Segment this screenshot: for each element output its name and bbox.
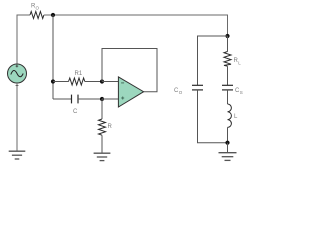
svg-text:C: C — [73, 109, 78, 115]
wire Co to bottom — [198, 90, 228, 143]
wire Rl to Cs — [227, 66, 229, 85]
svg-text:O: O — [179, 90, 183, 95]
capacitor Cs — [222, 84, 233, 86]
node left of R1 — [51, 79, 55, 83]
wire bottom branch to C — [53, 98, 72, 100]
resistor R1 — [69, 78, 85, 85]
wire R to ground — [101, 135, 103, 153]
resistor R (vertical) — [99, 119, 106, 135]
wire node to ground — [227, 143, 229, 153]
svg-text:O: O — [36, 6, 40, 11]
wire node to op-amp plus input — [102, 98, 118, 100]
op-amp U1 — [118, 77, 143, 107]
wire source bottom to ground — [16, 83, 18, 151]
wire Ro to top-right corner — [44, 15, 228, 36]
wire source top to Ro — [17, 15, 30, 64]
wire Cs to L — [227, 90, 229, 104]
ground under R — [94, 153, 111, 160]
ground under source — [9, 151, 26, 159]
ground right — [219, 153, 237, 161]
resistor Ro — [30, 12, 44, 19]
node top right — [225, 34, 229, 38]
node after Ro — [51, 13, 55, 17]
source Vs — [8, 64, 27, 83]
wire to Co branch — [198, 36, 228, 85]
wire C to node — [78, 98, 102, 100]
svg-text:S: S — [240, 90, 243, 95]
svg-text:R: R — [108, 124, 113, 130]
wire L to node — [227, 127, 229, 142]
capacitor C — [71, 95, 73, 104]
feedback wire output to inverting input — [102, 49, 157, 92]
node bottom right — [225, 141, 229, 145]
node inverting input — [100, 79, 104, 83]
wire node down to RC network — [52, 15, 54, 99]
wire to R1 — [53, 81, 69, 83]
inductor L — [228, 104, 232, 127]
capacitor Co — [192, 84, 203, 86]
node noninverting input — [100, 97, 104, 101]
svg-text:R1: R1 — [75, 71, 83, 77]
minus under source — [16, 85, 19, 87]
wire node to op-amp minus input — [102, 81, 118, 83]
svg-text:L: L — [234, 114, 238, 120]
wire node down to R — [101, 99, 103, 119]
svg-text:L: L — [238, 61, 241, 66]
wire R1 to node — [85, 81, 102, 83]
resistor Rl (vertical right) — [227, 36, 229, 52]
